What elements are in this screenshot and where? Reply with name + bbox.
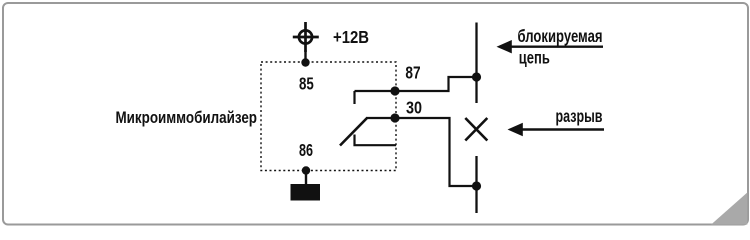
svg-text:Микроиммобилайзер: Микроиммобилайзер — [116, 108, 258, 127]
label Микроиммобилайзер — [116, 108, 258, 127]
junction pin 85 — [301, 58, 309, 66]
svg-text:86: 86 — [299, 140, 313, 160]
blocked circuit wire lower — [475, 156, 477, 213]
pin label 30 — [406, 98, 422, 118]
junction wire 30 on module border — [390, 113, 399, 122]
arrow break — [508, 123, 605, 136]
wire pin 30 — [367, 118, 477, 186]
svg-text:87: 87 — [405, 63, 420, 83]
label +12В — [333, 27, 369, 47]
pin label 87 — [405, 63, 420, 83]
pin label 86 — [299, 140, 313, 160]
pin label 85 — [299, 74, 314, 94]
power +12V symbol — [293, 22, 319, 52]
break symbol X — [465, 118, 487, 141]
junction pin 86 — [302, 166, 310, 174]
wire pin 87 — [355, 77, 477, 91]
junction wire 87 to blocked circuit — [472, 72, 481, 81]
wire pin 86 to ground — [305, 171, 307, 186]
microimmobilizer module dashed box — [261, 62, 396, 171]
label цепь — [519, 48, 550, 68]
svg-text:+12В: +12В — [333, 27, 369, 47]
junction wire 87 on module border — [390, 86, 399, 95]
relay contact 30 bracket — [355, 135, 397, 146]
svg-text:30: 30 — [406, 98, 422, 118]
ground — [291, 184, 321, 201]
junction wire 30 to blocked circuit — [472, 181, 481, 190]
label блокируемая — [518, 26, 603, 46]
arrow blocked circuit — [497, 40, 604, 53]
wire +12V to pin 85 — [304, 50, 306, 62]
svg-text:разрыв: разрыв — [556, 106, 603, 126]
relay armature — [340, 118, 368, 146]
svg-text:85: 85 — [299, 74, 314, 94]
relay fixed contact 87 stub — [353, 91, 355, 104]
blocked circuit wire upper — [475, 23, 477, 104]
svg-text:цепь: цепь — [519, 48, 550, 68]
svg-text:блокируемая: блокируемая — [518, 26, 603, 46]
label разрыв — [556, 106, 603, 126]
